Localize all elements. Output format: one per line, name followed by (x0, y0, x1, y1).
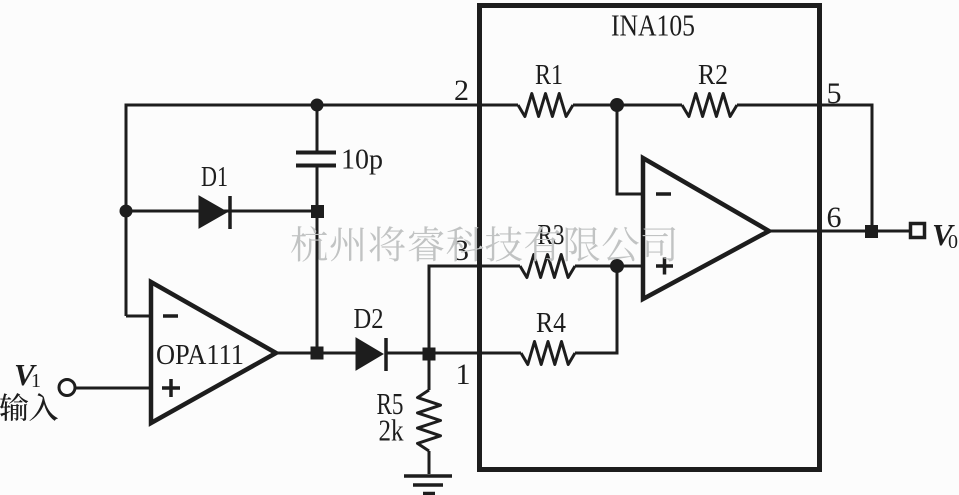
svg-text:D1: D1 (201, 162, 228, 193)
INA105 op-amp minus sign (656, 192, 671, 196)
svg-text:R3: R3 (538, 219, 565, 251)
resistor R5 (vertical, to ground) (418, 390, 441, 451)
wire R4 output to summing node (575, 266, 617, 353)
svg-text:2k: 2k (379, 413, 404, 448)
wire V1 input to OPA111 non-inverting input (75, 387, 151, 390)
wire OPA111 output to D2 and pin 1 row (276, 352, 356, 355)
label 输入 (input) (0, 393, 58, 421)
svg-text:1: 1 (31, 370, 41, 392)
wire pin 3 row (429, 266, 520, 353)
ground symbol (404, 476, 452, 494)
svg-text:1: 1 (456, 358, 471, 391)
OPA111 minus sign (163, 314, 178, 318)
resistor R2 (682, 94, 737, 117)
wire INA105 output pin 6 to V0 terminal (769, 230, 910, 233)
watermark 杭州将睿科技有限公司 (291, 226, 675, 262)
svg-text:INA105: INA105 (611, 8, 695, 43)
svg-text:2: 2 (454, 74, 469, 107)
INA105 op-amp plus sign (656, 258, 673, 275)
wire R5 stem to ground (428, 353, 431, 390)
wire D1 branch (126, 210, 317, 213)
svg-text:OPA111: OPA111 (156, 339, 244, 371)
capacitor 10p plates (296, 153, 336, 166)
op-amp U2 internal INA105 triangle (643, 158, 769, 299)
svg-text:10p: 10p (341, 144, 383, 176)
junction node: D1 cathode / cap bottom (311, 205, 324, 218)
wire top feedback rail (node 2 net) (126, 105, 518, 316)
wire OPA111 inverting input feed (126, 315, 151, 318)
junction node: summing + input (610, 259, 624, 273)
svg-text:6: 6 (827, 201, 842, 234)
svg-text:R4: R4 (536, 307, 566, 339)
junction node: OPA111 output (311, 347, 324, 360)
junction node: output V0 (865, 225, 878, 238)
diode D2 (356, 338, 386, 371)
OPA111 plus sign (162, 379, 180, 397)
junction node: D1 anode / feedback (120, 205, 133, 218)
resistor R1 (518, 94, 573, 117)
terminal: V0 output square (911, 224, 925, 238)
wire capacitor branch vertical (316, 105, 319, 152)
terminal: V1 input circle (59, 380, 75, 396)
junction node: D2 cathode / R5 / pin1 (423, 348, 436, 361)
svg-text:R2: R2 (698, 59, 728, 91)
junction node: R1-R2 / inverting input (610, 98, 624, 112)
junction node: cap top / rail (311, 99, 324, 112)
diode D1 (199, 196, 230, 229)
resistor R4 (521, 342, 575, 365)
op-amp U1 OPA111 triangle (151, 282, 276, 423)
svg-text:R1: R1 (535, 59, 563, 91)
wire INA105 inverting input from R1-R2 junction (617, 105, 643, 194)
IC boundary box INA105 U2 (480, 6, 820, 470)
svg-text:0: 0 (948, 231, 958, 253)
resistor R3 (520, 255, 575, 278)
svg-text:D2: D2 (354, 304, 384, 335)
svg-text:5: 5 (827, 77, 842, 110)
